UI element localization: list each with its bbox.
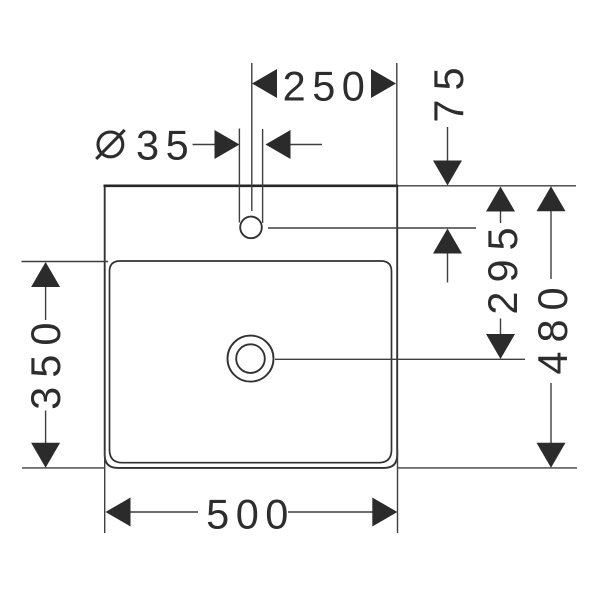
500 right extension <box>397 450 399 533</box>
295 top tail <box>500 212 502 224</box>
drain outer circle <box>228 336 274 382</box>
hole right edge line <box>262 129 264 223</box>
svg-text:250: 250 <box>283 63 372 110</box>
basin outer outline <box>105 186 398 468</box>
75 up arrow <box>433 229 462 254</box>
350 bottom extension <box>22 467 105 469</box>
295 bottom tail <box>500 319 502 335</box>
250 right extension line <box>396 63 398 186</box>
svg-text:35: 35 <box>136 122 195 169</box>
top edge right extension <box>398 185 576 187</box>
75 down arrow <box>433 161 462 186</box>
75 upper tail <box>447 127 449 161</box>
dia35 right-pointing arrow <box>215 130 240 159</box>
drain center extension <box>275 358 525 360</box>
500 left extension <box>104 450 106 533</box>
500 line left <box>130 511 198 513</box>
hole left edge line <box>238 129 240 223</box>
250 right arrow <box>371 69 396 98</box>
dia35 leader left <box>193 144 216 146</box>
svg-text:295: 295 <box>479 218 526 314</box>
hole center extension <box>268 227 476 229</box>
basin top edge (thick) <box>104 184 399 187</box>
faucet hole <box>240 217 262 239</box>
500 left arrow <box>106 498 131 527</box>
75 lower tail <box>447 253 449 283</box>
label dia 35 : drawn diameter symbol <box>96 130 125 159</box>
350 down arrow <box>31 443 60 468</box>
dia35 left-pointing arrow <box>266 130 291 159</box>
500 right arrow <box>372 498 397 527</box>
250 left arrow <box>252 69 277 98</box>
svg-text:480: 480 <box>529 278 576 374</box>
basin inner bowl <box>110 261 392 463</box>
480 top tail <box>550 211 552 279</box>
350 top extension <box>22 261 109 263</box>
480 up arrow <box>537 186 566 211</box>
svg-text:350: 350 <box>22 314 69 410</box>
bottom edge right extension <box>397 467 577 469</box>
350 bottom tail <box>45 411 47 444</box>
480 down arrow <box>537 443 566 468</box>
295 up arrow <box>486 187 515 212</box>
350 up arrow <box>31 262 60 287</box>
480 bottom tail <box>550 383 552 443</box>
faucet center line <box>251 63 253 211</box>
295 down arrow <box>486 334 515 359</box>
dia35 leader right <box>291 144 323 146</box>
500 line right <box>288 511 373 513</box>
svg-text:500: 500 <box>206 491 295 538</box>
drain inner circle <box>236 344 265 373</box>
svg-text:75: 75 <box>425 58 472 122</box>
350 top tail <box>45 287 47 320</box>
